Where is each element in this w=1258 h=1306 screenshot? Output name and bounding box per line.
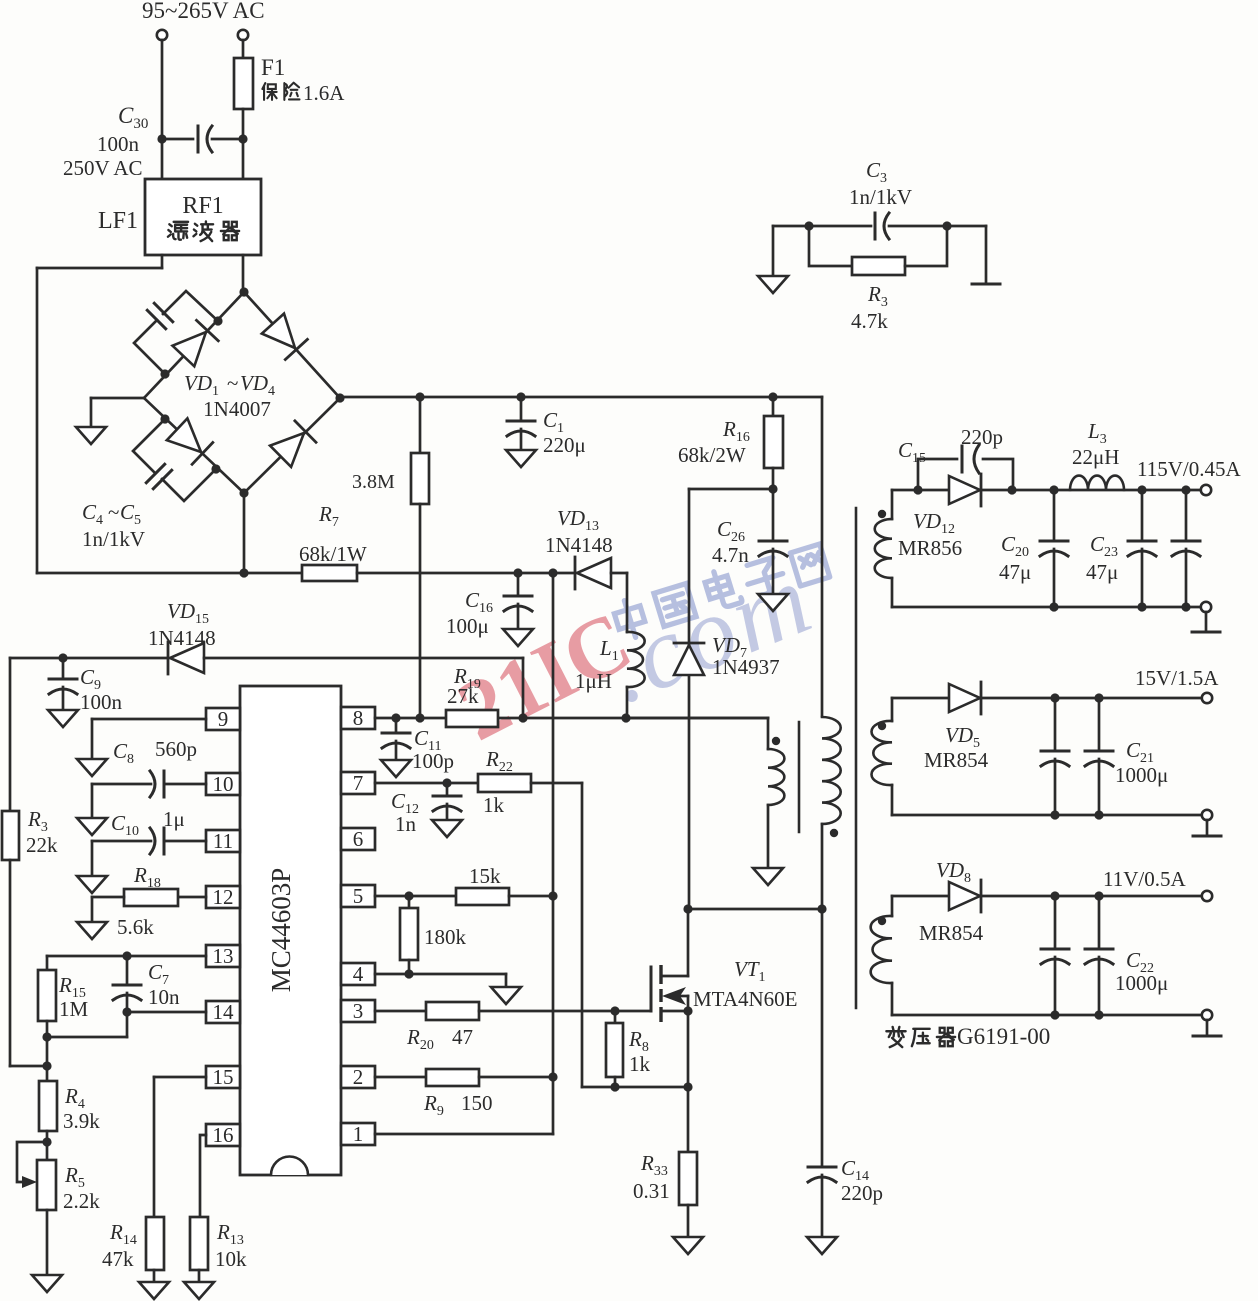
svg-text:1M: 1M: [59, 997, 89, 1021]
svg-text:14: 14: [213, 1000, 235, 1024]
svg-text:4: 4: [353, 962, 364, 986]
svg-text:3.8M: 3.8M: [352, 471, 395, 493]
svg-text:220μ: 220μ: [543, 433, 586, 457]
svg-text:10k: 10k: [215, 1247, 247, 1271]
svg-text:1N4148: 1N4148: [545, 533, 613, 557]
svg-text:68k/2W: 68k/2W: [678, 443, 746, 467]
svg-text:1k: 1k: [483, 793, 505, 817]
svg-text:13: 13: [213, 944, 234, 968]
svg-text:G6191-00: G6191-00: [957, 1024, 1050, 1049]
svg-text:2.2k: 2.2k: [63, 1189, 100, 1213]
svg-text:220p: 220p: [961, 425, 1003, 449]
svg-text:10: 10: [213, 772, 234, 796]
svg-text:1N4007: 1N4007: [203, 397, 271, 421]
svg-text:1: 1: [353, 1122, 364, 1146]
svg-text:1n: 1n: [395, 812, 417, 836]
svg-text:4.7n: 4.7n: [712, 543, 749, 567]
svg-text:F1: F1: [261, 55, 285, 80]
svg-text:MTA4N60E: MTA4N60E: [693, 987, 797, 1011]
svg-text:15: 15: [213, 1065, 234, 1089]
svg-text:~: ~: [108, 500, 119, 524]
svg-text:560p: 560p: [155, 737, 197, 761]
svg-text:47μ: 47μ: [1086, 560, 1118, 584]
svg-text:5.6k: 5.6k: [117, 915, 154, 939]
svg-text:MR854: MR854: [919, 921, 984, 945]
svg-text:12: 12: [213, 885, 234, 909]
svg-text:3.9k: 3.9k: [63, 1109, 100, 1133]
svg-text:11V/0.5A: 11V/0.5A: [1103, 867, 1186, 891]
svg-text:100μ: 100μ: [446, 614, 489, 638]
svg-text:1k: 1k: [629, 1052, 651, 1076]
svg-text:1N4148: 1N4148: [148, 626, 216, 650]
svg-text:47k: 47k: [102, 1247, 134, 1271]
svg-text:150: 150: [461, 1091, 493, 1115]
svg-text:1n/1kV: 1n/1kV: [849, 185, 912, 209]
svg-text:220p: 220p: [841, 1181, 883, 1205]
svg-text:1n/1kV: 1n/1kV: [82, 527, 145, 551]
svg-text:8: 8: [353, 706, 364, 730]
svg-text:3: 3: [353, 999, 364, 1023]
svg-text:1μH: 1μH: [575, 669, 612, 693]
svg-text:0.31: 0.31: [633, 1179, 670, 1203]
svg-text:15V/1.5A: 15V/1.5A: [1135, 666, 1219, 690]
svg-text:7: 7: [353, 771, 364, 795]
svg-text:100p: 100p: [412, 749, 454, 773]
svg-text:27k: 27k: [447, 684, 479, 708]
svg-text:95~265V AC: 95~265V AC: [142, 0, 265, 23]
svg-text:MR854: MR854: [924, 748, 989, 772]
svg-text:10n: 10n: [148, 985, 180, 1009]
svg-text:11: 11: [213, 829, 233, 853]
svg-text:1N4937: 1N4937: [712, 655, 780, 679]
svg-text:RF1: RF1: [182, 193, 223, 219]
svg-text:100n: 100n: [80, 690, 123, 714]
svg-text:47: 47: [452, 1025, 473, 1049]
svg-text:9: 9: [218, 707, 229, 731]
svg-text:22k: 22k: [26, 833, 58, 857]
svg-text:~: ~: [227, 371, 238, 395]
svg-text:MC44603P: MC44603P: [266, 868, 296, 993]
svg-text:5: 5: [353, 884, 364, 908]
svg-text:LF1: LF1: [98, 208, 138, 234]
svg-text:250V AC: 250V AC: [63, 156, 143, 180]
svg-text:1000μ: 1000μ: [1115, 971, 1168, 995]
svg-text:100n: 100n: [97, 132, 140, 156]
svg-text:6: 6: [353, 827, 364, 851]
svg-text:47μ: 47μ: [999, 560, 1031, 584]
svg-text:16: 16: [213, 1123, 234, 1147]
svg-text:180k: 180k: [424, 925, 467, 949]
svg-text:MR856: MR856: [898, 536, 962, 560]
svg-text:1.6A: 1.6A: [303, 81, 345, 105]
svg-text:2: 2: [353, 1065, 364, 1089]
svg-text:68k/1W: 68k/1W: [299, 542, 367, 566]
svg-text:1μ: 1μ: [163, 807, 185, 831]
svg-text:1000μ: 1000μ: [1115, 763, 1168, 787]
svg-text:15k: 15k: [469, 864, 501, 888]
svg-text:115V/0.45A: 115V/0.45A: [1137, 457, 1241, 481]
svg-text:4.7k: 4.7k: [851, 309, 888, 333]
svg-text:22μH: 22μH: [1072, 445, 1119, 469]
